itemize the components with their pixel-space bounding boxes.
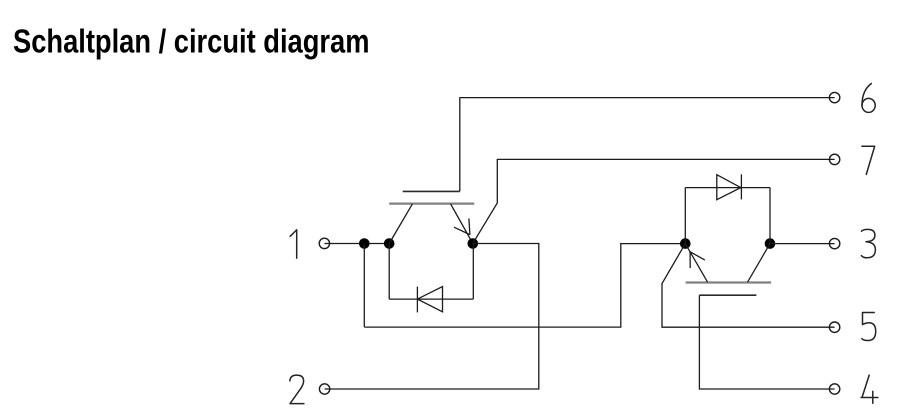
- diode D1 (antiparallel, cathode left): [389, 287, 473, 313]
- terminal circle pin 6: [829, 92, 839, 102]
- wire aux emitter T2 to pin 5: [662, 244, 835, 328]
- terminal circle pin 3: [829, 238, 839, 248]
- wire junction A1 down: [363, 244, 365, 328]
- svg-text:Schaltplan / circuit diagram: Schaltplan / circuit diagram: [13, 22, 370, 59]
- terminal circle pin 4: [829, 384, 839, 394]
- junction dot D (collector T2): [765, 238, 776, 249]
- wire gate T2 to pin 4: [699, 295, 834, 389]
- transistor T1 collector leg: [389, 204, 412, 244]
- junction dot A1: [359, 238, 370, 249]
- wire collector T1 down to diode D1: [388, 244, 390, 300]
- pin label 7: [862, 146, 875, 174]
- junction dot A2 (collector T1): [384, 238, 395, 249]
- transistor T1 channel bar: [389, 203, 474, 205]
- junction dot B (emitter T1): [468, 238, 479, 249]
- terminal circle pin 5: [829, 322, 839, 332]
- transistor T2 gate plate: [699, 294, 756, 296]
- pin label 6: [862, 84, 871, 106]
- wire pin1 rail to node A: [324, 243, 389, 245]
- wire emitter T1 down to diode D1: [472, 244, 474, 300]
- wire emitter T2 up to diode D2: [684, 188, 686, 244]
- terminal circle pin 7: [829, 154, 839, 164]
- wire pin 7 to emitter T1: [473, 159, 835, 243]
- pin label 4: [861, 375, 878, 403]
- transistor T1 gate plate: [403, 190, 460, 192]
- transistor T2 channel bar: [686, 281, 772, 283]
- wire emitter T1 to pin 2: [325, 244, 539, 390]
- pin label 3: [861, 229, 875, 257]
- wire collector T2 up to diode D2: [769, 188, 771, 244]
- transistor T2 emitter leg: [685, 244, 707, 283]
- transistor T2 collector leg: [748, 244, 771, 283]
- wire collector T2 to pin 3: [770, 243, 835, 245]
- wire lower-left rail to node C: [364, 244, 685, 328]
- wire gate T1 to pin 6: [460, 98, 835, 192]
- terminal circle pin 1: [319, 238, 329, 248]
- diode D2 (freewheel, cathode right): [685, 174, 770, 199]
- transistor T1 emitter arrow: [454, 218, 470, 234]
- transistor T2 emitter arrow: [690, 252, 705, 269]
- transistor T1 emitter leg: [451, 204, 473, 244]
- pin label 2: [290, 375, 304, 404]
- terminal circle pin 2: [319, 384, 329, 394]
- pin label 5: [862, 313, 876, 341]
- junction dot C (emitter T2): [680, 238, 691, 249]
- pin label 1: [290, 230, 297, 258]
